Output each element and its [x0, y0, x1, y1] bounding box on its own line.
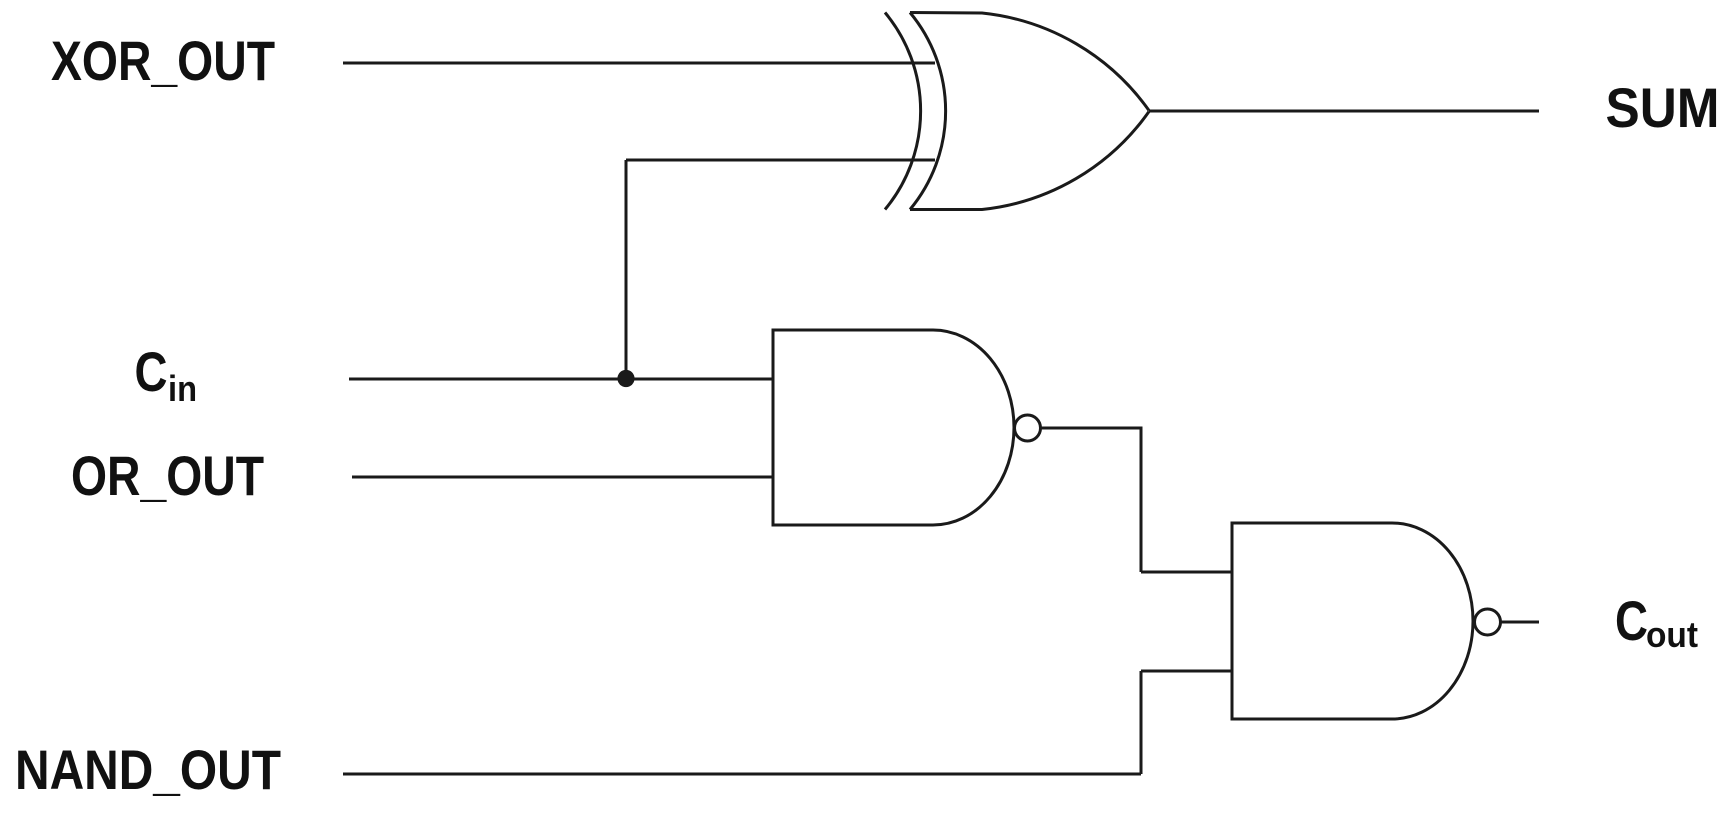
svg-text:XOR_OUT: XOR_OUT: [51, 29, 275, 92]
svg-text:OR_OUT: OR_OUT: [71, 444, 264, 507]
wire U2 output vertical down: [1140, 427, 1143, 573]
svg-text:C: C: [135, 340, 168, 403]
wire NAND_OUT vertical up: [1140, 671, 1143, 774]
svg-text:in: in: [168, 368, 197, 409]
wire NAND_OUT input: [343, 773, 1141, 776]
wire U2 output horizontal: [1041, 427, 1142, 430]
wire Cin input: [349, 378, 773, 381]
wire SUM output: [1149, 110, 1539, 113]
nand gate U2 body: [773, 330, 1014, 525]
nand gate U3 inversion bubble: [1475, 609, 1501, 635]
svg-text:SUM: SUM: [1606, 76, 1720, 139]
wire Cout output: [1501, 621, 1540, 624]
svg-text:out: out: [1646, 614, 1698, 655]
wire into U3 bottom input: [1141, 670, 1232, 673]
svg-text:C: C: [1615, 589, 1648, 652]
xor gate U1: [885, 13, 1149, 210]
wire OR_OUT input: [352, 476, 773, 479]
wire Cin branch vertical: [625, 160, 628, 379]
wire Cin branch horizontal to XOR gate lower input: [626, 159, 935, 162]
nand gate U3 body: [1232, 523, 1473, 719]
wire XOR_OUT input to XOR gate U1: [343, 62, 935, 65]
node junction dot on Cin: [617, 370, 634, 387]
nand gate U2 inversion bubble: [1015, 415, 1041, 441]
svg-text:NAND_OUT: NAND_OUT: [15, 738, 281, 801]
wire into U3 top input: [1141, 571, 1232, 574]
